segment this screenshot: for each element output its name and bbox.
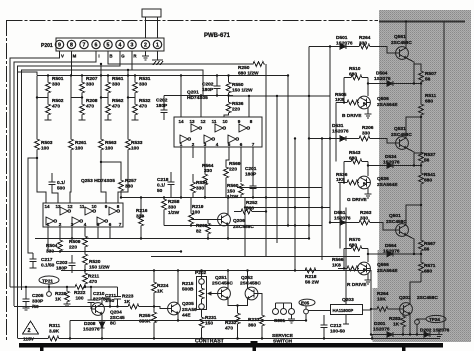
svg-text:330: 330: [196, 186, 204, 192]
svg-text:330: 330: [112, 82, 120, 88]
svg-text:500B: 500B: [182, 287, 194, 293]
mid bus y225: [164, 225, 322, 227]
black table bar: [19, 343, 443, 348]
svg-text:R264: R264: [377, 291, 389, 297]
wire Q531 collector: [406, 117, 421, 138]
svg-text:1K8: 1K8: [332, 263, 341, 269]
wire Q501 collector: [406, 205, 421, 225]
transistor Q206: [218, 213, 231, 226]
svg-text:330: 330: [362, 131, 370, 137]
wire Q251 collector: [227, 271, 229, 289]
IC HA11800P box: [308, 305, 371, 325]
svg-text:2SA564E: 2SA564E: [377, 268, 398, 274]
highlighted shaded region: [373, 10, 472, 342]
svg-text:2: 2: [59, 222, 62, 227]
svg-text:470: 470: [86, 104, 94, 110]
svg-text:R570: R570: [349, 237, 361, 243]
wire Q561 emitter: [406, 58, 415, 84]
svg-text:C203: C203: [56, 260, 68, 266]
resistor R208: [79, 94, 86, 120]
wire Q208 emitter: [101, 315, 103, 319]
svg-text:3.9K: 3.9K: [49, 329, 60, 335]
ground pin2: [142, 56, 149, 60]
vertical bus x444: [439, 22, 444, 335]
svg-text:R263: R263: [360, 210, 372, 216]
svg-text:0.1/: 0.1/: [57, 180, 66, 186]
svg-text:1S2076: 1S2076: [334, 216, 351, 222]
svg-text:470: 470: [52, 104, 60, 110]
svg-text:12: 12: [200, 119, 206, 124]
vertical wire x330: [329, 47, 331, 223]
wire R543 legs: [344, 162, 368, 183]
svg-text:R560: R560: [227, 183, 239, 189]
svg-text:R520: R520: [89, 259, 101, 265]
transistor Q252: [245, 287, 258, 300]
main supply bus y75: [37, 75, 288, 77]
svg-text:HA11800P: HA11800P: [333, 308, 354, 313]
svg-text:C201: C201: [245, 166, 257, 172]
svg-text:1K: 1K: [124, 299, 131, 305]
svg-text:2SC458C: 2SC458C: [233, 224, 254, 230]
wire col4 junction: [128, 97, 135, 99]
svg-text:10: 10: [222, 119, 228, 124]
capacitor C217: [30, 253, 37, 268]
inverter gates U201 top row: [191, 124, 250, 132]
svg-text:1K: 1K: [55, 297, 62, 303]
resistor R504: [58, 227, 63, 252]
table divider right: [402, 348, 405, 351]
resistor R231: [199, 315, 204, 339]
svg-text:P201: P201: [41, 43, 53, 49]
capacitor C202 (near IC top): [214, 76, 221, 96]
resistor R209: [206, 220, 211, 239]
svg-text:2SC458C: 2SC458C: [212, 281, 233, 287]
svg-text:2SA564E: 2SA564E: [377, 102, 398, 108]
mid bus y197: [121, 197, 310, 199]
svg-text:56: 56: [424, 247, 430, 253]
resistor R250: [252, 62, 265, 67]
inverter gates U253 bottom row: [46, 217, 108, 225]
svg-text:12: 12: [67, 204, 73, 209]
svg-text:1S2076: 1S2076: [383, 249, 400, 255]
resistor R543 680: [344, 159, 368, 164]
mid bus y207: [245, 207, 330, 209]
resistor R531: [133, 76, 138, 95]
svg-text:5: 5: [107, 43, 110, 49]
wire pin5 right to R250: [108, 51, 252, 64]
svg-text:330P: 330P: [32, 299, 44, 305]
capacitor C211: [110, 287, 127, 307]
svg-text:G: G: [121, 54, 125, 59]
svg-text:680: 680: [349, 72, 357, 78]
svg-text:470: 470: [89, 279, 97, 285]
svg-text:7: 7: [119, 222, 122, 227]
resistor R263 330: [347, 220, 396, 230]
svg-text:R218: R218: [305, 274, 317, 280]
svg-text:R569: R569: [229, 161, 241, 167]
resistor R566 1K8: [338, 266, 359, 271]
wire x340 interblock: [338, 183, 340, 249]
svg-text:680: 680: [424, 178, 432, 184]
svg-text:Q251: Q251: [215, 275, 227, 281]
svg-text:4: 4: [84, 222, 87, 227]
resistor R206 330: [347, 136, 396, 143]
wire y290 row: [10, 286, 118, 288]
diode D208: [99, 318, 104, 339]
svg-text:R261: R261: [75, 140, 87, 146]
wire col1 junction: [37, 97, 48, 99]
junction blob on bar: [251, 341, 258, 345]
svg-text:100: 100: [131, 146, 139, 152]
svg-text:Q561: Q561: [394, 34, 406, 40]
svg-text:S301: S301: [274, 318, 286, 324]
svg-text:R220: R220: [55, 291, 67, 297]
svg-text:10: 10: [91, 204, 97, 209]
resistor R536 220: [224, 96, 231, 118]
col1 stub: [18, 72, 38, 75]
svg-text:100: 100: [76, 296, 84, 302]
vertical wire x322: [321, 139, 323, 261]
svg-text:8C: 8C: [110, 321, 117, 327]
warning triangle 115V: [23, 321, 39, 334]
svg-text:R257: R257: [125, 178, 137, 184]
col4 stub to y70: [127, 70, 129, 75]
wire pin3 to left bus: [22, 51, 133, 290]
resistor R503: [35, 76, 46, 204]
capacitor C201: [250, 183, 257, 198]
resistor R207: [80, 76, 85, 95]
earth ground pin1: [152, 60, 163, 65]
svg-text:8: 8: [250, 119, 253, 124]
capacitor C203: [69, 255, 76, 273]
svg-text:2SA56: 2SA56: [182, 307, 197, 313]
svg-text:150: 150: [205, 321, 213, 327]
svg-text:180P: 180P: [202, 87, 214, 93]
resistor R502: [45, 94, 52, 120]
diode D531: [309, 136, 347, 141]
inverter gates U201 bottom row: [180, 135, 239, 143]
svg-text:D564: D564: [385, 243, 397, 249]
diode D534: [386, 163, 394, 168]
frame border vertical (dash-dot): [6, 20, 8, 342]
wire pin4 to left bus: [18, 51, 121, 338]
svg-text:E05: E05: [301, 301, 310, 306]
vertical wire x277: [276, 96, 278, 243]
IC U253 pin numbers bottom: [47, 222, 122, 227]
wire R570 legs: [344, 249, 368, 269]
svg-text:56 2W: 56 2W: [305, 280, 319, 286]
svg-text:1S2076: 1S2076: [332, 129, 349, 135]
resistor R233: [260, 314, 265, 339]
svg-text:R206: R206: [362, 125, 374, 131]
wire Q208 base: [90, 308, 93, 310]
ground Q506: [365, 114, 372, 118]
svg-text:100: 100: [105, 146, 113, 152]
resistor R536 1K8: [338, 180, 359, 185]
svg-text:R563: R563: [105, 140, 117, 146]
svg-text:680: 680: [349, 243, 357, 249]
frame border horizontal (dash-dot): [7, 20, 379, 22]
resistor R541 680: [419, 166, 424, 240]
bottom right row y334: [372, 335, 439, 339]
svg-text:100: 100: [192, 210, 200, 216]
node row R y258: [368, 253, 421, 255]
resistor R222: [74, 285, 87, 290]
resistor R283 1K: [401, 313, 406, 335]
svg-text:Q206: Q206: [233, 218, 245, 224]
svg-text:C205: C205: [32, 293, 44, 299]
svg-text:500: 500: [57, 186, 65, 192]
svg-text:R224: R224: [157, 283, 169, 289]
svg-text:470: 470: [112, 104, 120, 110]
svg-text:330: 330: [125, 184, 133, 190]
capacitor C218: [168, 172, 175, 198]
svg-text:Q203: Q203: [342, 297, 354, 303]
svg-text:R264: R264: [359, 35, 371, 41]
svg-text:R571: R571: [424, 263, 436, 269]
wire y251: [48, 251, 181, 253]
svg-text:D531: D531: [332, 123, 344, 129]
svg-text:330: 330: [139, 82, 147, 88]
svg-text:Q201: Q201: [187, 90, 199, 96]
svg-text:R503: R503: [41, 140, 53, 146]
svg-text:Q204: Q204: [110, 310, 122, 316]
svg-text:D208: D208: [84, 321, 96, 327]
IC top pin wires: [181, 76, 330, 118]
signal letters under pins: [61, 54, 137, 59]
svg-text:R507: R507: [425, 71, 437, 77]
wire Q206 emitter: [227, 225, 229, 239]
wire y70 right branch: [132, 70, 203, 95]
resistor R562: [105, 94, 112, 120]
svg-text:180P: 180P: [245, 172, 257, 178]
vertical wire x295: [294, 139, 296, 271]
svg-text:2: 2: [192, 142, 195, 147]
mid bus y187: [237, 187, 322, 189]
svg-text:R509: R509: [69, 239, 81, 245]
svg-text:330: 330: [52, 82, 60, 88]
svg-text:1S2076: 1S2076: [336, 41, 353, 47]
mid bus y238: [35, 238, 309, 240]
resistor R570 680: [344, 246, 368, 251]
transistor Q251: [218, 287, 231, 300]
table divider middle: [253, 348, 256, 351]
resistor R534: [191, 174, 196, 198]
svg-text:330: 330: [360, 216, 368, 222]
svg-text:R536: R536: [232, 101, 244, 107]
svg-text:0.1/50: 0.1/50: [41, 263, 55, 269]
transistor Q208: [92, 303, 105, 316]
test point TP21: [39, 276, 59, 296]
svg-text:V: V: [61, 54, 64, 59]
svg-text:330: 330: [359, 41, 367, 47]
svg-text:3: 3: [131, 43, 134, 49]
transistor Q561: [396, 47, 409, 60]
IC U201 box: [174, 117, 262, 147]
wire pin6-bus to R223: [14, 306, 110, 308]
svg-text:100: 100: [41, 146, 49, 152]
wire Q531 emitter: [406, 148, 415, 166]
svg-text:1K: 1K: [157, 289, 164, 295]
svg-text:115V: 115V: [23, 337, 35, 343]
svg-text:D202 1S2076: D202 1S2076: [420, 328, 450, 334]
test point TP24: [415, 315, 446, 334]
svg-text:6: 6: [95, 43, 98, 49]
diode D501: [309, 44, 347, 49]
svg-text:44E: 44E: [182, 313, 191, 319]
wire col3 junction: [101, 97, 108, 99]
wire Q506 emitter to ground: [367, 108, 369, 115]
resistor R255: [152, 307, 157, 339]
wire pin9 to left bus: [10, 51, 60, 287]
svg-text:1K8: 1K8: [335, 97, 344, 103]
svg-text:R534: R534: [196, 180, 208, 186]
svg-text:C212: C212: [330, 323, 342, 329]
svg-text:100: 100: [75, 146, 83, 152]
svg-text:1/2W: 1/2W: [168, 210, 180, 216]
svg-text:Q205: Q205: [182, 301, 194, 307]
svg-text:330: 330: [204, 168, 212, 174]
svg-text:R566: R566: [332, 257, 344, 263]
vertical wire x309: [308, 47, 310, 239]
svg-text:R223: R223: [122, 294, 134, 300]
resistor R219: [189, 198, 194, 226]
svg-text:13: 13: [189, 119, 195, 124]
svg-text:1S2076: 1S2076: [83, 327, 100, 333]
wire pin6 to left bus: [14, 51, 96, 306]
diode D504: [386, 81, 394, 86]
resistor R533: [118, 76, 130, 204]
IC U253 bottom pin wires: [48, 227, 110, 252]
capacitor C216: [49, 173, 58, 203]
svg-text:R233: R233: [248, 317, 260, 323]
svg-text:R311: R311: [49, 323, 61, 329]
svg-text:1: 1: [156, 43, 159, 49]
svg-text:2SA564E: 2SA564E: [377, 182, 398, 188]
svg-text:Q202: Q202: [399, 295, 411, 301]
resistor R220: [64, 287, 71, 306]
table divider left: [40, 348, 43, 351]
capacitor C212: [321, 315, 328, 339]
wire col3 y162 branch: [101, 162, 121, 179]
svg-text:2SC458C: 2SC458C: [391, 40, 412, 46]
svg-text:G DRIVE: G DRIVE: [347, 197, 368, 203]
svg-text:560: 560: [246, 206, 254, 212]
svg-text:2SC458C: 2SC458C: [240, 281, 261, 287]
svg-text:680: 680: [349, 156, 357, 162]
svg-text:TP21: TP21: [42, 279, 53, 284]
resistor R564: [203, 173, 208, 198]
wire Q206 base: [191, 219, 218, 221]
connector P201 box: [56, 38, 164, 51]
wire Q566 emitter to ground: [367, 274, 369, 281]
svg-text:R510: R510: [349, 66, 361, 72]
ground Q566: [365, 280, 372, 284]
svg-text:R504: R504: [46, 243, 58, 249]
diode D202: [423, 332, 431, 337]
resistor R223: [127, 304, 168, 309]
wire Q206 collector: [227, 198, 229, 215]
svg-text:680K: 680K: [139, 319, 151, 325]
svg-text:B DRIVE: B DRIVE: [342, 113, 362, 119]
ground S301: [288, 319, 295, 323]
resistor R511 680: [419, 83, 424, 155]
svg-text:R561: R561: [112, 76, 124, 82]
resistor R226: [235, 306, 240, 339]
terminal E05: [299, 299, 315, 320]
resistor R510 680: [344, 75, 368, 80]
svg-text:HD74S05: HD74S05: [187, 95, 208, 101]
svg-text:R250: R250: [238, 65, 250, 71]
svg-text:R211: R211: [88, 274, 100, 280]
svg-text:56: 56: [424, 158, 430, 164]
svg-text:R543: R543: [349, 150, 361, 156]
node row B y83: [368, 83, 421, 85]
svg-text:2SC458C: 2SC458C: [391, 132, 412, 138]
svg-text:6: 6: [109, 222, 112, 227]
ground Q536: [365, 194, 372, 198]
svg-text:11: 11: [212, 119, 217, 124]
resistor R211: [83, 271, 88, 288]
resistor R258: [162, 198, 167, 226]
resistor R505 1K8: [336, 100, 359, 105]
resistor R507 56: [414, 64, 423, 83]
IC U253 box: [43, 203, 123, 227]
svg-text:4: 4: [119, 43, 122, 49]
svg-text:8: 8: [70, 43, 73, 49]
svg-text:680: 680: [424, 269, 432, 275]
resistor R520: [83, 248, 88, 271]
wire Q251 emitter to join: [228, 299, 248, 306]
ground right: [436, 335, 443, 339]
resistor R550: [226, 76, 231, 96]
svg-text:2: 2: [28, 328, 31, 334]
vertical wire x266: [265, 64, 267, 257]
svg-text:1S2076: 1S2076: [374, 76, 391, 82]
svg-text:R562: R562: [112, 98, 124, 104]
svg-text:330: 330: [168, 205, 176, 211]
svg-text:R216: R216: [136, 208, 148, 214]
transistor Q531: [396, 137, 409, 150]
svg-text:PWB-671: PWB-671: [204, 33, 231, 39]
svg-text:R537: R537: [424, 152, 436, 158]
svg-text:220: 220: [232, 107, 240, 113]
IC pin numbers top: [178, 119, 252, 124]
svg-text:D501: D501: [336, 35, 348, 41]
svg-text:180P: 180P: [156, 103, 168, 109]
jumper link above pins 2-1: [142, 9, 161, 38]
svg-text:470: 470: [139, 104, 147, 110]
connector pins 9..1: [55, 40, 161, 48]
svg-text:B: B: [109, 54, 112, 59]
svg-text:R567: R567: [424, 241, 436, 247]
svg-text:150 1/2W: 150 1/2W: [232, 88, 253, 94]
svg-text:SERVICE: SERVICE: [272, 333, 294, 339]
wire x346 to Q203: [345, 208, 347, 305]
resistor R264 10K: [371, 307, 400, 312]
svg-text:R255: R255: [139, 313, 151, 319]
col3 stub to y64: [100, 64, 102, 75]
wire col2 junction: [71, 97, 82, 99]
svg-text:R222: R222: [74, 290, 86, 296]
svg-text:TP24: TP24: [429, 317, 440, 322]
resistor R311: [47, 336, 60, 341]
transistor Q202: [400, 303, 413, 316]
resistor R561: [106, 76, 111, 95]
svg-text:9: 9: [58, 43, 61, 49]
svg-text:11: 11: [80, 204, 85, 209]
transistor Q566: [358, 262, 371, 275]
